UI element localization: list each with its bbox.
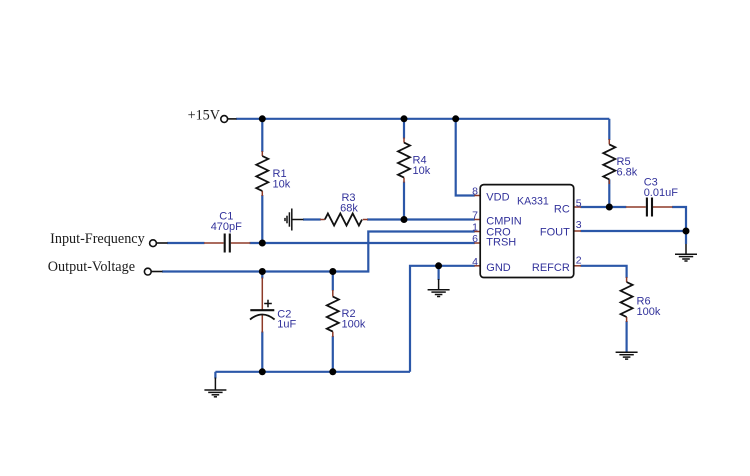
svg-text:7: 7	[472, 210, 478, 222]
svg-text:3: 3	[576, 219, 582, 231]
svg-text:5: 5	[576, 197, 582, 209]
svg-text:6: 6	[472, 233, 478, 245]
svg-text:+15V: +15V	[188, 108, 221, 124]
svg-text:470pF: 470pF	[211, 221, 242, 233]
svg-text:REFCR: REFCR	[532, 262, 570, 274]
svg-text:GND: GND	[486, 262, 511, 274]
svg-text:68k: 68k	[340, 203, 358, 215]
svg-text:Input-Frequency: Input-Frequency	[50, 231, 145, 247]
svg-text:RC: RC	[554, 204, 570, 216]
svg-text:100k: 100k	[637, 306, 661, 318]
svg-text:100k: 100k	[342, 319, 366, 331]
svg-text:4: 4	[472, 256, 478, 268]
svg-text:1uF: 1uF	[277, 319, 296, 331]
svg-text:8: 8	[472, 186, 478, 198]
svg-text:TRSH: TRSH	[486, 237, 516, 249]
svg-text:1: 1	[472, 221, 478, 233]
svg-text:CMPIN: CMPIN	[486, 215, 522, 227]
svg-text:Output-Voltage: Output-Voltage	[48, 259, 135, 275]
svg-text:KA331: KA331	[517, 196, 549, 208]
svg-text:FOUT: FOUT	[540, 227, 570, 239]
svg-text:6.8k: 6.8k	[617, 167, 638, 179]
svg-text:VDD: VDD	[486, 191, 509, 203]
svg-text:10k: 10k	[413, 165, 431, 177]
svg-text:10k: 10k	[273, 178, 291, 190]
svg-text:0.01uF: 0.01uF	[644, 187, 679, 199]
svg-text:2: 2	[576, 255, 582, 267]
